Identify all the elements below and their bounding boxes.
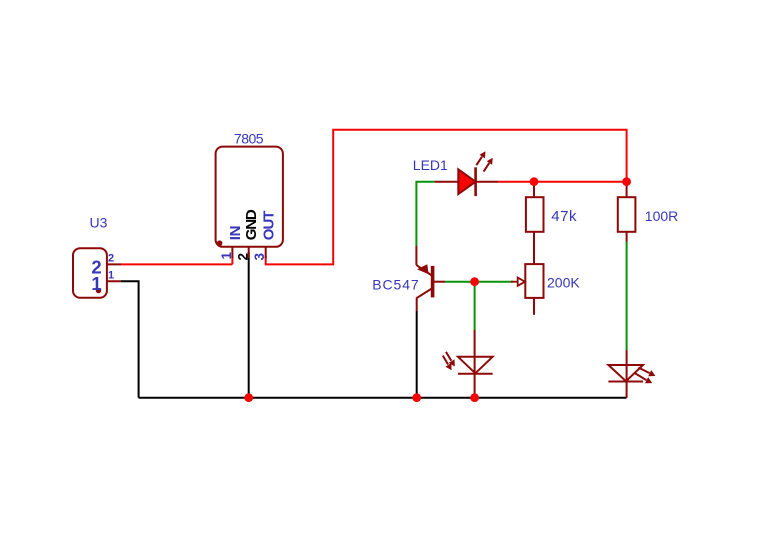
wire base junction down to photodiode D1 (green) <box>474 282 476 330</box>
7805 pin number 3 <box>252 253 267 261</box>
svg-text:3: 3 <box>252 253 267 261</box>
svg-text:OUT: OUT <box>260 211 277 241</box>
svg-text:7805: 7805 <box>234 131 264 147</box>
wire ground rail (black) <box>139 397 627 399</box>
svg-text:1: 1 <box>219 252 234 260</box>
svg-text:U3: U3 <box>90 215 108 231</box>
svg-text:GND: GND <box>243 209 260 240</box>
junction dot 100R top <box>622 177 631 186</box>
7805 pin number 1 <box>219 252 234 260</box>
label 47k <box>551 208 577 225</box>
photodiode D2 arrows <box>635 368 656 384</box>
junction dot GND rail at 7805 <box>244 393 253 402</box>
junction dot 47k top <box>530 177 539 186</box>
svg-text:200K: 200K <box>547 274 580 290</box>
svg-text:1: 1 <box>91 273 101 294</box>
photodiode D2 (right, emitting arrows) <box>608 350 643 398</box>
wire 7805 GND down to rail (black) <box>248 252 250 398</box>
7805 pin1 origin dot <box>217 240 223 246</box>
7805 pin name GND <box>243 209 260 240</box>
U3 pin number 1 <box>108 269 114 281</box>
wire U3 pin1 to ground rail (black) <box>121 281 139 398</box>
label 200K <box>547 274 580 290</box>
photodiode D1 incoming light arrows <box>443 352 455 370</box>
7805 pin number 2 <box>236 253 251 261</box>
resistor 47k (R?) <box>526 183 544 264</box>
wire U3 pin2 to 7805 IN (net VIN, red) <box>121 256 232 264</box>
label LED1 <box>413 157 448 173</box>
junction dot rail at emitter <box>412 393 421 402</box>
label 7805 <box>234 131 264 147</box>
label 100R <box>645 208 678 224</box>
LED1 emission arrows <box>476 151 492 171</box>
label U3 <box>90 215 108 231</box>
label BC547 <box>372 277 419 293</box>
wire 7805 OUT to top rail to 100R top (net +5V, red) <box>266 130 627 265</box>
7805 pin name OUT <box>260 211 277 241</box>
wire LED1 anode to BC547 collector (green) <box>416 182 434 246</box>
wire 100R bottom to photodiode D2 (green) <box>626 241 628 350</box>
regulator IC1 7805 body <box>216 147 283 258</box>
U3 pin1 origin dot <box>96 288 101 293</box>
U3 pin name 2 <box>91 256 101 277</box>
svg-text:LED1: LED1 <box>413 157 448 173</box>
connector U3 body <box>73 248 121 298</box>
wire LED1 cathode to resistor junctions (red) <box>498 181 627 183</box>
svg-text:2: 2 <box>108 252 114 264</box>
trimmer 200K wiper arrow <box>511 278 525 286</box>
7805 pin name IN <box>227 226 244 240</box>
svg-text:100R: 100R <box>645 208 678 224</box>
svg-text:BC547: BC547 <box>372 277 419 293</box>
svg-text:IN: IN <box>227 226 244 240</box>
svg-text:2: 2 <box>236 253 251 261</box>
resistor 100R (R?) <box>618 183 636 242</box>
junction dot base/200K <box>470 277 479 286</box>
photodiode D1 (middle) <box>458 330 493 398</box>
junction dot rail at photodiode D1 <box>470 393 479 402</box>
wire BC547 base to 200K wiper (green) <box>445 281 513 283</box>
svg-text:1: 1 <box>108 269 114 281</box>
U3 pin number 2 <box>108 252 114 264</box>
LED1 symbol <box>435 167 498 196</box>
U3 pin name 1 <box>91 273 101 294</box>
wire BC547 emitter to rail (black) <box>416 311 418 398</box>
svg-text:47k: 47k <box>551 208 577 225</box>
transistor BC547 Q1 <box>416 246 445 311</box>
trimmer 200K body <box>525 264 543 315</box>
